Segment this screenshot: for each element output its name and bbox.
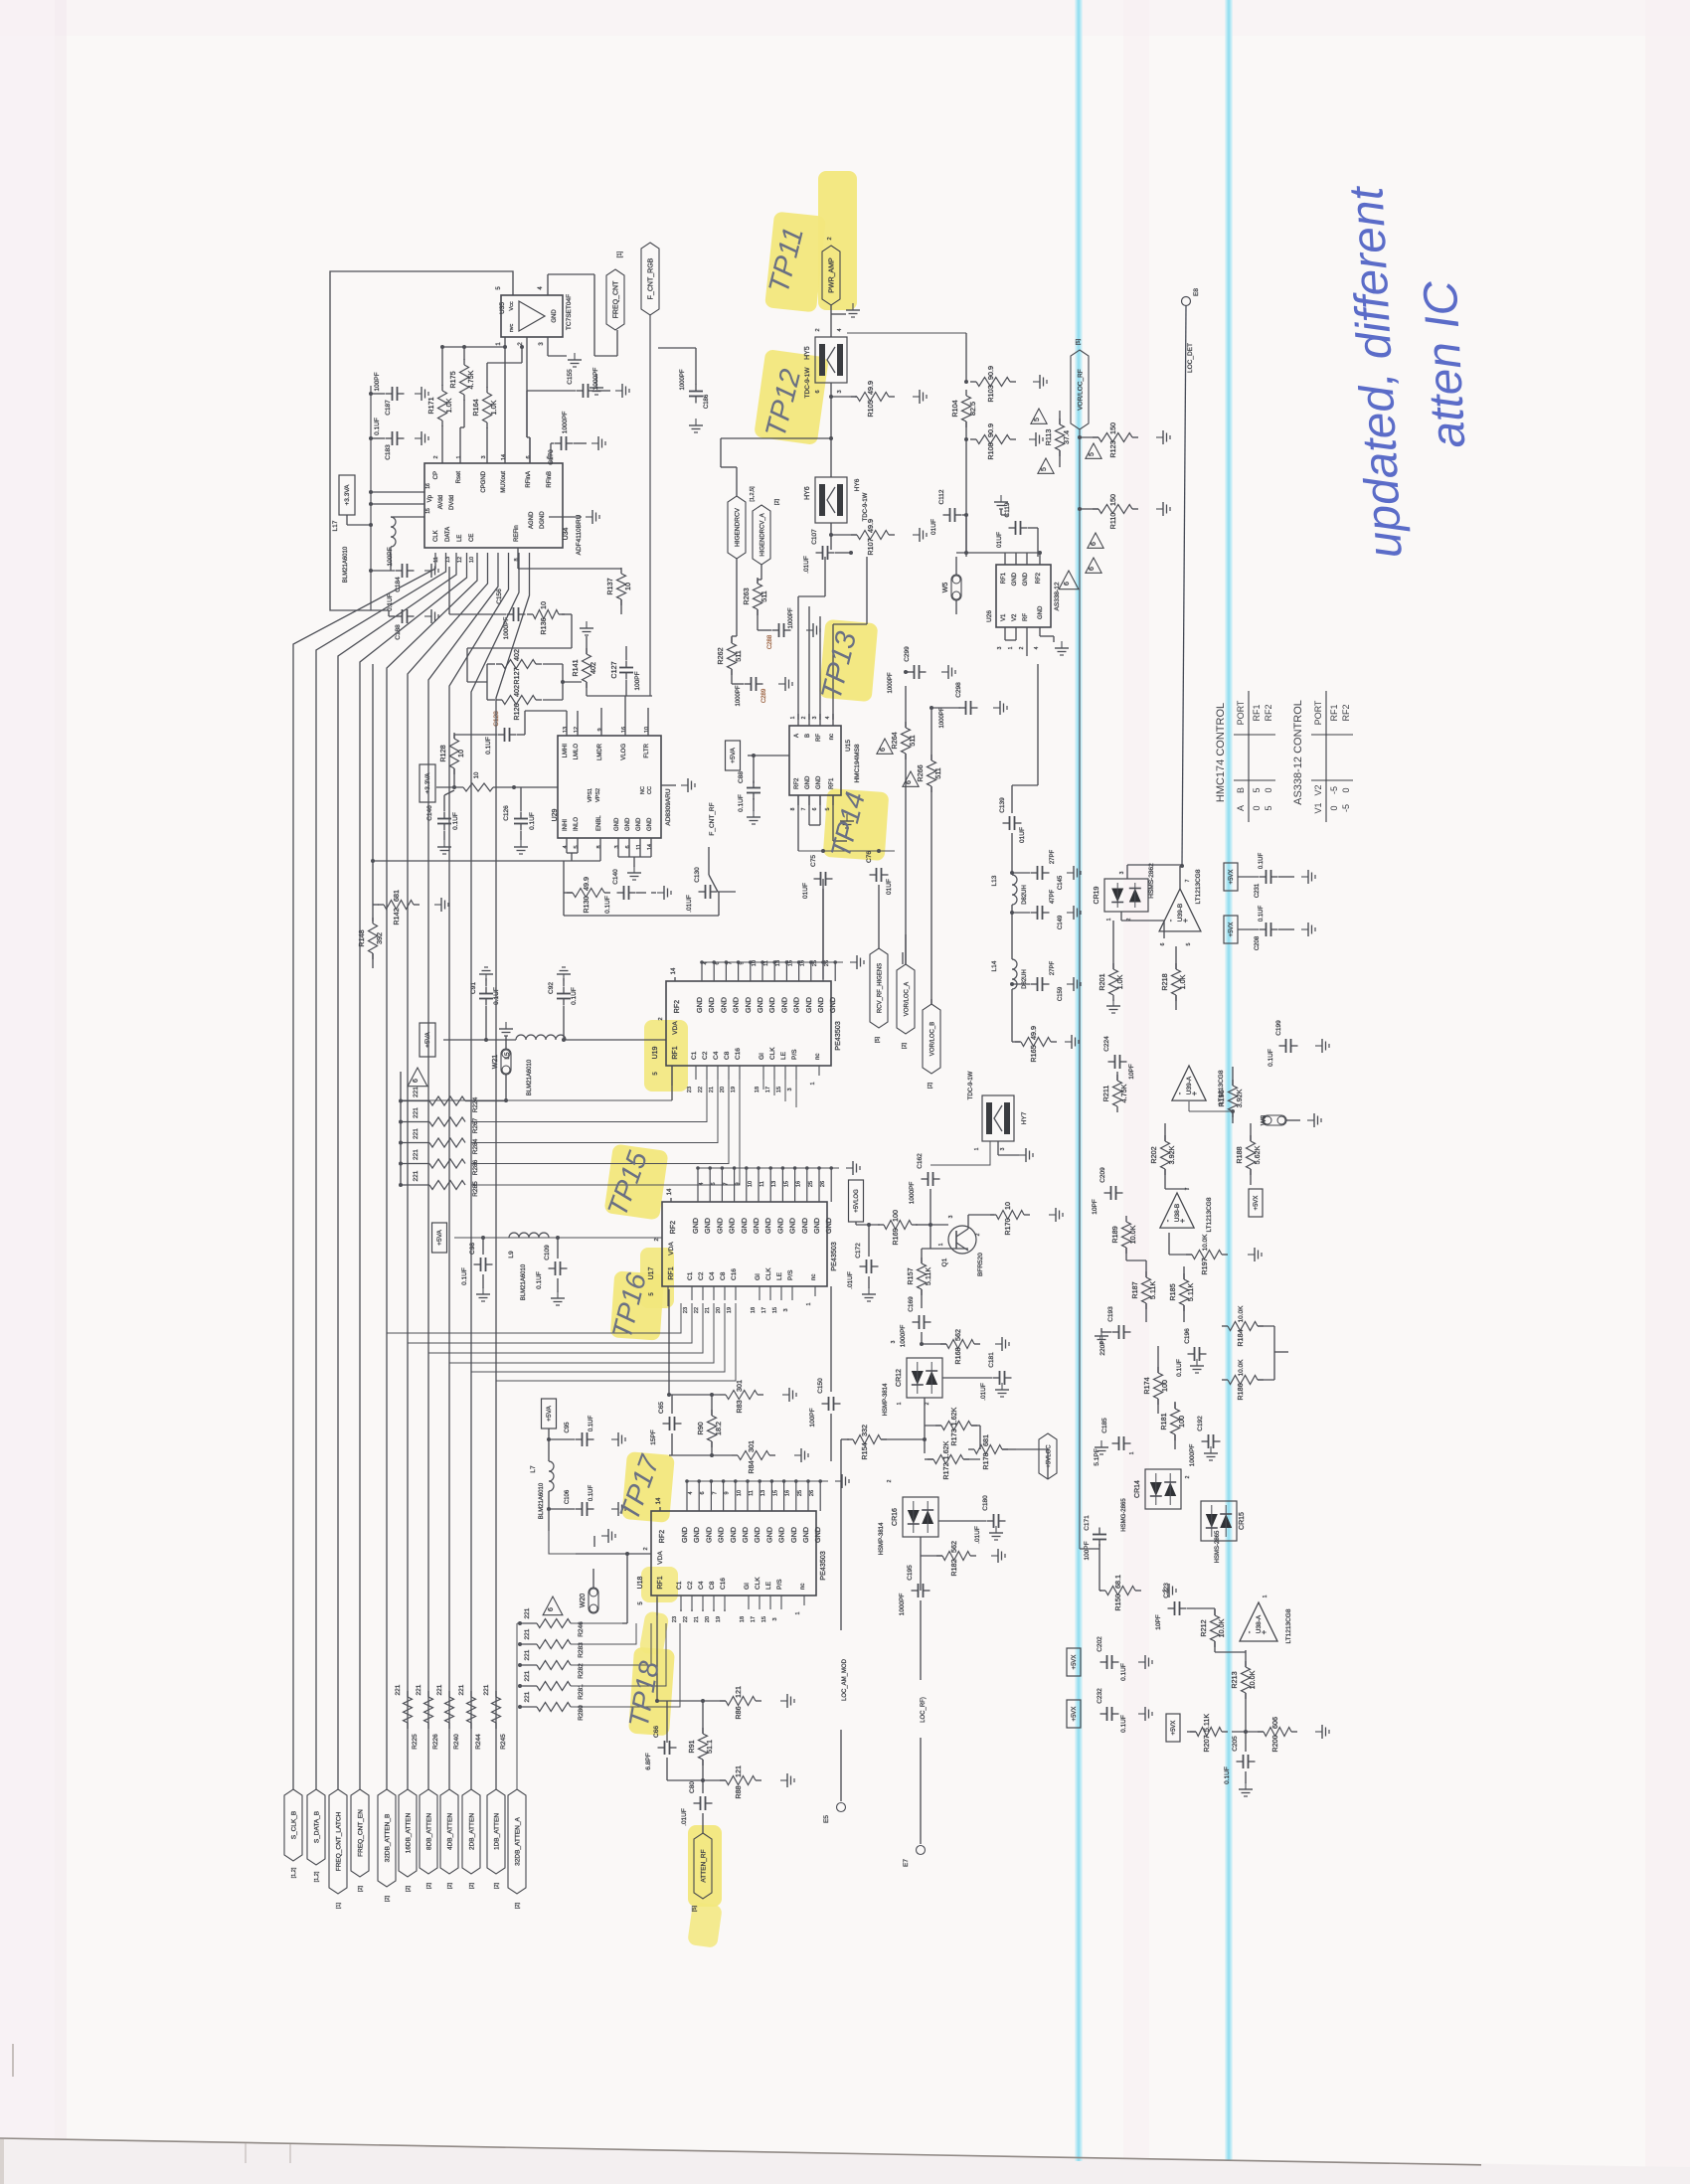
svg-text:R150: R150 [1113,1594,1122,1610]
svg-text:6: 6 [625,845,631,848]
svg-text:RFinB: RFinB [547,471,553,488]
svg-text:R189: R189 [1110,1226,1119,1243]
svg-text:A: A [1236,805,1246,811]
svg-text:1: 1 [1129,1451,1135,1454]
svg-text:R108: R108 [986,442,995,459]
svg-text:+5VX: +5VX [1229,870,1235,885]
svg-text:R262: R262 [716,647,725,664]
svg-text:25: 25 [797,1490,803,1496]
svg-text:L7: L7 [530,1465,537,1473]
svg-text:10.0K: 10.0K [1217,1618,1226,1637]
svg-text:VOR/LOC_A: VOR/LOC_A [905,982,911,1016]
svg-text:13: 13 [563,727,569,733]
svg-text:C4: C4 [698,1581,705,1590]
svg-text:6: 6 [1091,542,1098,546]
svg-text:C196: C196 [1184,1328,1191,1344]
svg-text:82.5: 82.5 [968,402,977,416]
svg-text:C181: C181 [988,1352,995,1368]
svg-text:3: 3 [812,716,818,719]
svg-text:1: 1 [790,716,796,719]
svg-text:R240: R240 [453,1734,460,1750]
svg-text:26: 26 [820,1181,826,1187]
svg-text:HY7: HY7 [1021,1111,1028,1124]
svg-text:1.62K: 1.62K [949,1407,958,1426]
svg-text:NC: NC [640,786,646,794]
svg-text:GND: GND [691,1218,700,1234]
svg-text:P/S: P/S [791,1049,798,1060]
svg-text:2: 2 [433,455,439,458]
svg-text:6: 6 [526,455,532,458]
svg-text:27PF: 27PF [1050,849,1056,864]
svg-text:6: 6 [413,1079,420,1083]
svg-text:V2: V2 [1313,784,1323,795]
svg-text:2: 2 [1019,646,1025,649]
svg-text:R91: R91 [687,1740,696,1753]
svg-text:6: 6 [700,1491,706,1494]
svg-text:+5VX: +5VX [1072,1707,1078,1722]
svg-text:C65: C65 [658,1402,665,1414]
svg-text:RCV_RF_HIGENS: RCV_RF_HIGENS [878,963,884,1013]
svg-text:GND: GND [788,1218,797,1234]
svg-text:GND: GND [775,1218,784,1234]
svg-text:6: 6 [1064,582,1071,586]
svg-text:8: 8 [790,807,796,810]
svg-text:6: 6 [880,748,887,752]
svg-text:R211: R211 [1101,1086,1110,1102]
svg-text:1: 1 [974,1147,980,1150]
svg-text:221: 221 [413,1128,420,1139]
svg-text:R113: R113 [1044,429,1053,446]
svg-text:+5VX: +5VX [1171,1721,1177,1736]
svg-text:5.62K: 5.62K [1253,1145,1262,1164]
svg-text:11: 11 [763,960,769,966]
svg-text:PE43503: PE43503 [833,1021,842,1051]
svg-text:Rset: Rset [456,471,462,484]
svg-text:90.9: 90.9 [986,366,995,380]
svg-text:U39-B: U39-B [1177,904,1184,922]
svg-text:R226: R226 [432,1734,439,1750]
svg-text:C183: C183 [385,444,392,460]
svg-text:100PF: 100PF [1084,1541,1091,1560]
svg-text:17: 17 [761,1307,767,1313]
svg-text:5.11K: 5.11K [1148,1281,1157,1299]
svg-text:PORT: PORT [1236,700,1246,725]
svg-text:6: 6 [1160,942,1166,945]
svg-text:-: - [1166,919,1175,922]
svg-text:1: 1 [1263,1595,1268,1597]
svg-text:+5VX: +5VX [1072,1655,1078,1670]
svg-text:V1: V1 [1001,613,1007,621]
svg-text:W8: W8 [1261,1115,1267,1126]
svg-text:[1,2]: [1,2] [291,1867,297,1878]
svg-text:0.1UF: 0.1UF [589,1484,594,1501]
svg-text:5: 5 [574,845,580,848]
svg-text:13: 13 [775,960,781,966]
svg-text:R105: R105 [866,400,875,417]
svg-text:R154: R154 [860,1442,869,1459]
svg-text:U26: U26 [986,610,993,622]
svg-text:1: 1 [1008,646,1014,649]
svg-text:15PF: 15PF [650,1429,657,1445]
svg-text:R171: R171 [426,397,435,414]
svg-text:15: 15 [772,1490,778,1496]
svg-text:100: 100 [1160,1380,1169,1392]
svg-text:0.1UF: 0.1UF [536,1271,543,1289]
svg-text:9: 9 [736,1182,742,1185]
svg-text:49.9: 49.9 [1029,1026,1038,1040]
svg-text:C150: C150 [817,1378,824,1394]
svg-text:C195: C195 [907,1565,914,1581]
svg-text:17: 17 [751,1616,757,1622]
svg-text:nc: nc [815,1054,821,1060]
svg-text:[2]: [2] [928,1082,933,1089]
svg-text:GND: GND [647,817,653,831]
svg-text:R175: R175 [448,371,457,388]
svg-text:16: 16 [621,727,627,733]
svg-text:R213: R213 [1230,1671,1239,1688]
svg-text:U19: U19 [652,1046,659,1059]
svg-text:0: 0 [1264,787,1273,792]
svg-text:R185: R185 [1168,1283,1177,1300]
svg-text:5.11K: 5.11K [924,1267,932,1285]
svg-text:LT1213CG8: LT1213CG8 [1206,1197,1213,1232]
svg-text:22: 22 [683,1616,689,1622]
svg-text:C16: C16 [735,1048,742,1060]
svg-text:C4: C4 [713,1051,720,1060]
svg-text:402: 402 [512,649,521,661]
svg-text:E7: E7 [903,1859,910,1867]
svg-text:GND: GND [719,997,728,1013]
svg-text:PE43503: PE43503 [818,1551,827,1581]
svg-text:R218: R218 [1160,973,1169,990]
svg-text:C171: C171 [1084,1515,1091,1531]
svg-text:C140: C140 [612,869,619,885]
svg-text:CE: CE [469,534,475,542]
svg-text:GND: GND [779,997,788,1013]
svg-text:V2: V2 [1012,613,1018,621]
svg-text:14: 14 [671,967,677,974]
svg-text:7: 7 [727,961,733,964]
svg-text:VOR/LOC_B: VOR/LOC_B [930,1022,936,1056]
svg-text:21: 21 [694,1616,700,1622]
svg-text:U39-A: U39-A [1186,1076,1193,1094]
svg-text:GND: GND [752,1218,760,1234]
svg-text:HSMP-3814: HSMP-3814 [879,1522,885,1555]
svg-text:FREQ_CNT: FREQ_CNT [613,280,620,318]
svg-text:RF2: RF2 [794,777,800,789]
svg-text:14: 14 [667,1188,673,1195]
svg-text:V1: V1 [1313,802,1323,813]
svg-text:R164: R164 [471,399,480,416]
svg-text:C185: C185 [1101,1418,1108,1433]
svg-text:AGND: AGND [529,511,535,529]
svg-text:D82UH: D82UH [1022,885,1028,905]
svg-text:B: B [805,734,811,738]
svg-text:R104: R104 [950,400,959,417]
svg-text:221: 221 [524,1691,531,1702]
svg-text:0.1UF: 0.1UF [1259,905,1265,922]
svg-text:10: 10 [752,960,758,966]
svg-text:15: 15 [772,1307,778,1313]
svg-text:25: 25 [812,960,818,966]
svg-text:CR12: CR12 [896,1369,903,1387]
svg-text:Vp: Vp [427,494,433,502]
svg-text:C126: C126 [503,805,510,821]
svg-text:.01UF: .01UF [686,895,693,913]
svg-text:FREQ_CNT_LATCH: FREQ_CNT_LATCH [336,1811,343,1871]
svg-text:2: 2 [887,1479,893,1482]
svg-text:R286: R286 [472,1159,479,1175]
svg-text:681: 681 [981,1434,990,1446]
svg-text:1.62K: 1.62K [941,1440,950,1459]
svg-text:C80: C80 [689,1781,696,1793]
svg-text:221: 221 [436,1684,443,1695]
svg-text:R90: R90 [696,1422,705,1434]
svg-text:DATA: DATA [445,527,451,542]
svg-text:27PF: 27PF [1050,960,1056,975]
svg-text:19: 19 [731,1087,737,1092]
svg-text:CR14: CR14 [1134,1480,1141,1498]
svg-text:10.0K: 10.0K [1248,1670,1257,1689]
svg-text:+5VA: +5VA [436,1230,443,1246]
svg-text:3: 3 [614,845,620,848]
svg-text:GND: GND [812,1218,821,1234]
svg-text:[2]: [2] [494,1882,500,1889]
svg-text:BFR520: BFR520 [977,1253,984,1276]
svg-text:0.1UF: 0.1UF [604,896,611,914]
svg-text:6: 6 [715,961,721,964]
svg-text:HSMS-2862: HSMS-2862 [1148,863,1155,899]
svg-text:18: 18 [740,1616,746,1622]
svg-text:221: 221 [524,1607,531,1618]
svg-text:TDC-9-1W: TDC-9-1W [968,1071,974,1099]
svg-text:R186: R186 [1236,1383,1245,1400]
svg-text:22: 22 [694,1307,700,1313]
svg-text:0.1UF: 0.1UF [571,987,578,1005]
svg-text:16: 16 [425,483,431,489]
svg-text:GND: GND [777,1527,786,1543]
svg-text:R127: R127 [512,667,521,684]
svg-text:C8: C8 [724,1051,731,1060]
svg-text:12: 12 [457,557,463,563]
svg-text:GND: GND [789,1527,798,1543]
svg-text:S_CLK_B: S_CLK_B [291,1811,298,1840]
svg-text:301: 301 [747,1440,756,1452]
svg-text:R266: R266 [916,764,925,781]
svg-text:GND: GND [792,997,801,1013]
svg-text:GND: GND [805,775,811,789]
svg-text:C159: C159 [1058,986,1064,1001]
svg-text:VDA: VDA [672,1021,679,1035]
svg-text:[5]: [5] [692,1905,698,1912]
svg-text:BLM21A6010: BLM21A6010 [527,1059,533,1095]
svg-text:nvc: nvc [509,323,515,332]
svg-text:221: 221 [413,1149,420,1160]
svg-text:BLM21A6010: BLM21A6010 [343,546,349,583]
svg-text:4.75K: 4.75K [1119,1084,1128,1102]
svg-text:HSMG-2865: HSMG-2865 [1121,1498,1127,1532]
svg-text:GND: GND [767,997,776,1013]
svg-text:LMHI: LMHI [563,744,569,758]
svg-text:RF1: RF1 [672,1046,679,1059]
svg-text:U34: U34 [563,527,570,540]
svg-text:16: 16 [800,960,806,966]
svg-text:5: 5 [1041,467,1048,471]
svg-text:+5VA: +5VA [730,748,737,763]
svg-text:GND: GND [703,1218,712,1234]
svg-text:CP: CP [433,471,439,479]
svg-text:10PF: 10PF [1155,1614,1162,1630]
svg-text:4: 4 [688,1491,694,1494]
svg-text:4: 4 [703,961,709,964]
svg-text:R86: R86 [734,1706,743,1719]
svg-text:121: 121 [734,1765,743,1777]
svg-text:C127: C127 [609,661,618,678]
svg-text:CR19: CR19 [1094,886,1100,904]
svg-text:8: 8 [596,845,602,848]
svg-text:nc: nc [811,1274,817,1280]
svg-text:332: 332 [860,1425,869,1436]
svg-text:R136: R136 [539,617,548,634]
svg-text:C180: C180 [982,1495,989,1511]
svg-text:606: 606 [1270,1717,1279,1729]
svg-text:GND: GND [729,1527,738,1543]
svg-text:GND: GND [1038,605,1044,619]
svg-text:[2]: [2] [447,1882,453,1889]
svg-text:R110: R110 [1108,513,1117,530]
svg-text:HIGENDRCV: HIGENDRCV [735,507,742,547]
svg-text:2: 2 [801,716,807,719]
svg-text:3: 3 [1119,871,1125,874]
svg-text:2DB_ATTEN: 2DB_ATTEN [469,1813,476,1850]
svg-text:GND: GND [740,1218,749,1234]
svg-text:C232: C232 [1097,1688,1103,1704]
svg-text:511: 511 [908,735,917,746]
svg-text:100PF: 100PF [634,671,641,690]
svg-text:01UF: 01UF [1019,827,1026,843]
svg-text:CPGND: CPGND [481,470,487,492]
svg-text:LMLO: LMLO [574,744,580,760]
svg-text:D82UH: D82UH [1022,969,1028,989]
svg-text:C75: C75 [810,855,817,867]
svg-text:GND: GND [704,1527,713,1543]
svg-text:C66: C66 [653,1726,660,1738]
svg-text:221: 221 [458,1684,465,1695]
svg-text:GND: GND [636,817,642,831]
svg-text:0.1UF: 0.1UF [1224,1766,1231,1784]
svg-text:R126: R126 [512,703,521,720]
svg-text:6: 6 [711,1182,717,1185]
svg-text:1000PF: 1000PF [899,1594,906,1616]
svg-text:3: 3 [787,1088,793,1091]
svg-text:5: 5 [825,807,831,810]
svg-text:B: B [1236,787,1246,793]
svg-text:R212: R212 [1199,1619,1208,1636]
svg-text:C169: C169 [908,1296,915,1312]
svg-text:11: 11 [636,844,642,850]
svg-text:C193: C193 [1107,1306,1114,1322]
svg-text:14: 14 [647,844,653,850]
svg-text:562: 562 [953,1329,962,1341]
svg-text:1.0K: 1.0K [489,400,498,415]
svg-text:10.0K: 10.0K [1238,1305,1245,1323]
svg-text:GND: GND [801,1527,810,1543]
svg-text:ENBL: ENBL [596,815,602,831]
svg-text:10: 10 [623,583,632,590]
svg-text:[1]: [1] [617,251,623,257]
svg-text:1000PF: 1000PF [900,1325,907,1348]
svg-text:HMC174 CONTROL: HMC174 CONTROL [1215,703,1227,802]
svg-text:2: 2 [827,237,833,240]
svg-text:49.9: 49.9 [582,877,591,891]
svg-text:RF1: RF1 [1001,572,1007,584]
svg-text:01UF: 01UF [886,879,893,895]
svg-text:1000PF: 1000PF [562,412,569,434]
svg-text:GND: GND [828,997,837,1013]
svg-text:PWR_AMP: PWR_AMP [829,257,836,293]
svg-text:L13: L13 [991,875,998,886]
svg-text:GND: GND [763,1218,772,1234]
svg-text:11: 11 [749,1490,755,1496]
svg-text:C186: C186 [704,394,710,409]
svg-text:6.8PF: 6.8PF [645,1753,652,1769]
svg-text:C231: C231 [1255,883,1261,898]
svg-text:2: 2 [975,1233,981,1236]
svg-text:GI: GI [759,1053,765,1060]
svg-text:CC: CC [647,786,653,794]
svg-text:C224: C224 [1103,1036,1110,1052]
svg-text:C155: C155 [567,369,574,385]
svg-text:[5]: [5] [1076,338,1082,345]
svg-text:+5VLOG: +5VLOG [854,1189,860,1213]
svg-text:C202: C202 [1097,1636,1103,1652]
svg-text:U15: U15 [845,740,852,752]
svg-text:10: 10 [748,1181,754,1187]
svg-text:4DB_ATTEN: 4DB_ATTEN [447,1813,454,1850]
svg-text:GND: GND [715,1218,724,1234]
svg-text:0.1UF: 0.1UF [1259,852,1265,869]
svg-text:VDA: VDA [668,1242,675,1256]
svg-text:221: 221 [413,1170,420,1181]
svg-text:LOC_DET: LOC_DET [1187,343,1194,373]
svg-text:GND: GND [695,997,704,1013]
svg-text:R197: R197 [1200,1258,1209,1274]
svg-text:GND: GND [1012,572,1018,586]
svg-text:0.1UF: 0.1UF [452,812,459,830]
svg-text:R187: R187 [1130,1281,1139,1298]
svg-text:GND: GND [614,817,620,831]
svg-text:RF1: RF1 [1252,704,1262,721]
svg-text:17: 17 [765,1087,771,1092]
svg-text:100: 100 [891,1210,900,1222]
svg-text:[1,2,5]: [1,2,5] [750,486,756,502]
svg-text:BLM21A6010: BLM21A6010 [539,1482,545,1519]
svg-text:REFin: REFin [514,525,520,542]
svg-text:C289: C289 [761,688,767,703]
svg-text:1000PF: 1000PF [503,617,510,640]
svg-text:LE: LE [765,1581,772,1590]
svg-text:4: 4 [699,1182,705,1185]
svg-text:PE43503: PE43503 [829,1242,838,1271]
svg-text:R137: R137 [605,578,614,594]
svg-text:U38-A: U38-A [1256,1614,1263,1633]
svg-text:49.9: 49.9 [866,381,875,395]
svg-text:LE: LE [780,1051,787,1060]
svg-text:13: 13 [760,1490,766,1496]
svg-text:-: - [1175,1092,1184,1094]
svg-text:.01UF: .01UF [980,1383,987,1401]
svg-text:GND: GND [824,1218,833,1234]
